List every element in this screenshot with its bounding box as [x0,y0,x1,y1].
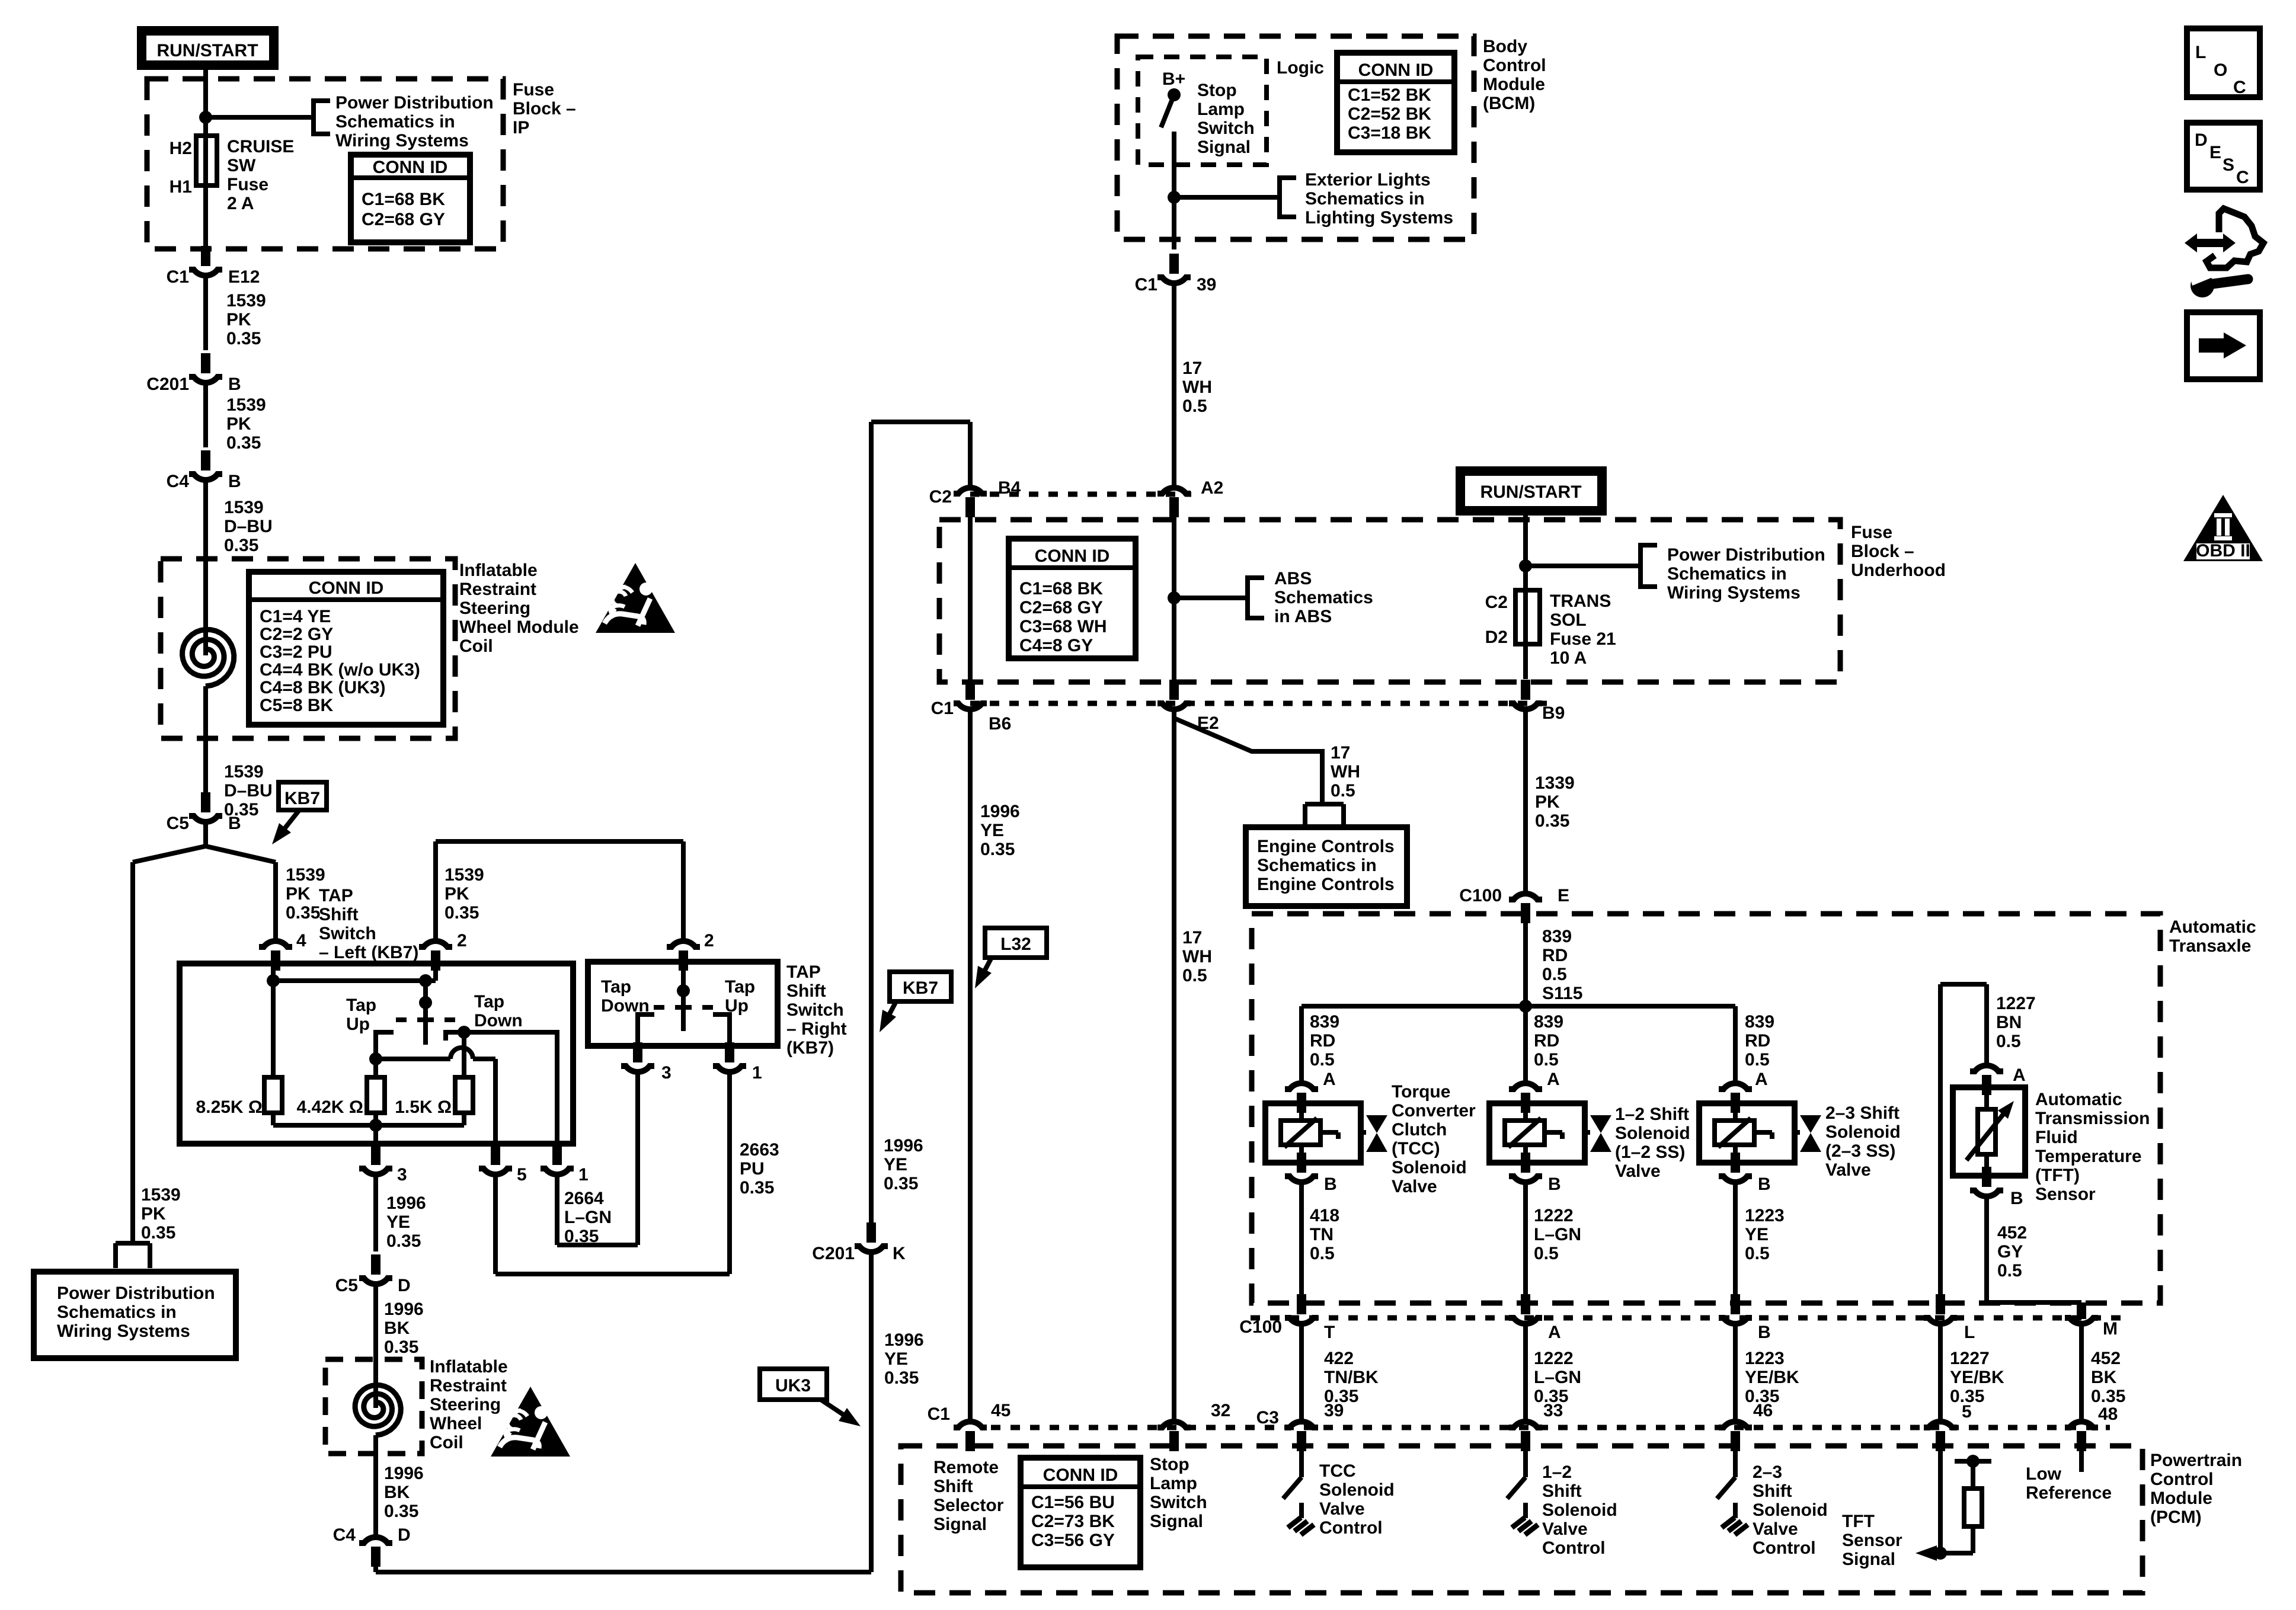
wire to Power Distribution reference [206,101,330,134]
svg-text:Signal: Signal [1842,1550,1895,1569]
svg-text:Lamp: Lamp [1197,100,1245,119]
svg-text:5: 5 [1962,1402,1972,1422]
svg-text:D2: D2 [1485,628,1508,647]
PCM connector pin 33 [1509,1422,1542,1451]
svg-text:1996: 1996 [384,1299,424,1319]
svg-text:Control: Control [1753,1538,1816,1558]
connector C100 pin A [1509,1294,1561,1342]
svg-text:Steering: Steering [459,598,530,618]
svg-text:Fuse: Fuse [227,175,268,194]
svg-text:1–2: 1–2 [1542,1462,1572,1482]
svg-text:0.5: 0.5 [1745,1244,1770,1263]
svg-text:B: B [228,472,241,491]
connector C1 pin 39 (BCM) [1135,254,1217,295]
svg-text:0.35: 0.35 [740,1178,774,1198]
label 1227 BN 0.5 [1996,994,2036,1051]
svg-text:839: 839 [1542,927,1572,946]
svg-text:0.5: 0.5 [1534,1050,1559,1070]
svg-text:WH: WH [1182,947,1212,966]
right switch pin 2 [667,931,714,971]
wire 1223 YE [1733,1183,1738,1295]
wire 1223 YE/BK [1733,1325,1738,1420]
svg-text:Steering: Steering [430,1395,501,1414]
svg-text:Switch: Switch [1150,1493,1207,1512]
TFT sensor (variable resistor) [1953,1087,2025,1176]
PCM connector pin 5 [1924,1422,1957,1451]
label 1539 PK 0.35 (1) [226,291,266,348]
TCC solenoid pin B [1285,1153,1337,1194]
label 2663 PU 0.35 [740,1140,779,1198]
svg-text:Automatic: Automatic [2169,917,2256,937]
svg-text:D: D [2195,130,2208,150]
label 1996 BK 0.35 (1) [384,1299,424,1357]
2-3 shift solenoid valve control driver [1717,1451,1748,1535]
svg-text:CONN ID: CONN ID [309,578,384,598]
svg-text:B: B [2010,1189,2023,1208]
label Stop Lamp Switch Signal (BCM) [1197,81,1255,157]
svg-text:1996: 1996 [884,1136,923,1156]
label Automatic Transmission Fluid Temperature (TFT) Sensor [2035,1090,2150,1204]
svg-text:WH: WH [1331,762,1360,782]
svg-text:Schematics in: Schematics in [57,1302,177,1322]
wire 1339 PK [1523,710,1528,892]
svg-text:Schematics in: Schematics in [1305,189,1425,209]
switch common bus [267,966,436,1077]
label Inflatable Restraint Steering Wheel Coil [430,1357,508,1452]
label Power Distribution Schematics (underhood) [1667,545,1825,603]
wire TapUp node to pin 5 with hop [376,1048,495,1144]
label Remote Shift Selector Signal [933,1458,1004,1534]
svg-text:UK3: UK3 [775,1376,811,1395]
TCC solenoid pin A [1285,1070,1336,1113]
svg-text:E12: E12 [228,267,260,287]
inline connector C100 dotted line [1251,1315,2125,1321]
label 17 WH 0.5 (2) [1331,743,1360,801]
low reference stub [2079,1451,2084,1472]
svg-text:Power Distribution: Power Distribution [57,1283,215,1303]
svg-text:32: 32 [1211,1401,1230,1420]
connector C100 pin T [1239,1294,1335,1342]
option flag KB7 (riser) [880,972,951,1032]
svg-text:RUN/START: RUN/START [1480,482,1581,502]
label 1223 YE/BK 0.35 pin 46 [1745,1349,1799,1420]
svg-text:Transaxle: Transaxle [2169,936,2251,956]
svg-text:Logic: Logic [1277,58,1324,78]
CONN ID table (PCM) [1021,1458,1140,1567]
svg-text:C3=56 GY: C3=56 GY [1031,1531,1115,1550]
svg-text:5: 5 [517,1165,527,1185]
svg-text:(PCM): (PCM) [2150,1507,2202,1527]
svg-text:Remote: Remote [933,1458,999,1477]
svg-text:IP: IP [513,118,529,137]
svg-text:Module: Module [1483,75,1545,94]
svg-text:C201: C201 [146,375,189,394]
connector C4 pin D [333,1454,411,1567]
svg-text:M: M [2103,1319,2118,1339]
svg-text:1539: 1539 [445,865,484,885]
svg-text:Powertrain: Powertrain [2150,1451,2242,1470]
BCM logic dashed box [1138,57,1267,165]
svg-text:PK: PK [141,1204,166,1224]
svg-text:CONN ID: CONN ID [1035,546,1110,566]
option flag KB7 (switch feed) [272,782,327,844]
svg-text:TAP: TAP [319,886,353,905]
svg-text:D: D [398,1525,411,1545]
wire pin2 to right switch pin2 [436,841,683,940]
svg-text:0.5: 0.5 [1310,1244,1335,1263]
connector C201 pin K [812,1244,906,1263]
svg-text:Solenoid: Solenoid [1542,1500,1617,1520]
svg-text:Tap: Tap [474,992,504,1012]
node B+ [1162,69,1185,89]
svg-text:4.42K Ω: 4.42K Ω [297,1097,363,1117]
TAP shift switch right box [588,962,778,1046]
icon LOC box [2187,28,2260,97]
connector pin B9 [1509,680,1565,723]
svg-text:Fuse 21: Fuse 21 [1550,629,1616,649]
svg-text:PU: PU [740,1159,765,1179]
svg-text:C5=8 BK: C5=8 BK [260,696,334,715]
label TAP Shift Switch - Left (KB7) [319,886,418,962]
wire 1996 YE from pin 3 [373,1176,378,1251]
TFT pull-up resistor to reference [1940,1455,1991,1553]
right Tap Up contact [713,1014,730,1046]
svg-text:Module: Module [2150,1489,2212,1508]
label Body Control Module (BCM) [1483,37,1546,113]
svg-text:8.25K Ω: 8.25K Ω [196,1097,263,1117]
svg-text:PK: PK [286,884,311,904]
label TAP Shift Switch - Right (KB7) [786,962,847,1058]
PCM connector C1 pin 45 [928,1401,1011,1451]
svg-text:C3=68 WH: C3=68 WH [1019,617,1107,636]
1-2 shift solenoid pin B [1509,1153,1561,1194]
wire 1996 YE riser with C201 connector [855,422,888,1572]
wire fuse to B9 [1523,644,1528,679]
svg-text:SW: SW [227,156,256,175]
svg-text:0.35: 0.35 [226,329,261,348]
wire 17 WH to PCM 32 [1172,710,1176,1420]
svg-text:Signal: Signal [1150,1512,1203,1531]
svg-text:Temperature: Temperature [2035,1147,2142,1166]
svg-text:KB7: KB7 [284,789,320,808]
svg-text:C2: C2 [929,487,952,507]
svg-text:Solenoid: Solenoid [1392,1158,1467,1177]
svg-text:1227: 1227 [1950,1349,1990,1368]
label Stop Lamp Switch Signal (PCM) [1150,1455,1207,1531]
svg-text:(TCC): (TCC) [1392,1139,1440,1158]
wire 2664 L-GN tap down link [557,1073,638,1245]
svg-text:S: S [2223,155,2234,175]
svg-text:C5: C5 [335,1276,358,1295]
svg-text:Tap: Tap [601,977,631,997]
fuse CRUISE SW 2A [196,136,217,185]
Fuse Block - Underhood dashed box [939,520,1840,682]
CONN ID table (underhood) [1009,539,1136,658]
wire 1227 feed to TFT [1940,984,1987,1297]
svg-text:Underhood: Underhood [1851,561,1946,580]
svg-text:0.35: 0.35 [386,1231,421,1251]
svg-text:Schematics: Schematics [1274,588,1373,607]
icon OBD II triangle [2183,495,2263,561]
svg-text:– Left (KB7): – Left (KB7) [319,943,418,962]
svg-text:1222: 1222 [1534,1206,1574,1225]
svg-text:TRANS: TRANS [1550,591,1611,611]
svg-text:3: 3 [397,1165,407,1185]
label 839 RD 0.5 S115 [1542,927,1582,1003]
svg-text:17: 17 [1182,359,1202,378]
SRS coil module dashed box (upper) [161,559,455,738]
label Tap Up (left switch) [346,996,376,1034]
wire 1222 L-GN (2) [1523,1325,1528,1420]
svg-text:Valve: Valve [1753,1519,1798,1539]
svg-text:SOL: SOL [1550,610,1587,630]
svg-text:C100: C100 [1239,1317,1282,1337]
svg-text:C1: C1 [931,699,954,718]
right switch blade [654,965,713,1031]
icon right arrow box [2187,312,2260,379]
svg-text:0.5: 0.5 [1182,966,1207,985]
svg-text:BK: BK [2091,1368,2117,1387]
svg-text:O: O [2214,60,2227,80]
wire 1539 PK left branch [130,862,135,1243]
wire 422 TN/BK [1299,1325,1304,1420]
power feed tag RUN/START (right) [1460,471,1602,511]
svg-text:Solenoid: Solenoid [1615,1124,1690,1143]
svg-text:839: 839 [1534,1012,1563,1032]
wire 452 BK [2079,1325,2084,1420]
wire 1539 D-BU segment [203,481,208,559]
svg-text:C1=4 YE: C1=4 YE [260,607,331,626]
svg-text:YE: YE [1745,1225,1769,1244]
svg-text:YE/BK: YE/BK [1950,1368,2004,1387]
label Fuse Block - Underhood [1851,523,1946,580]
svg-text:Wiring Systems: Wiring Systems [1667,583,1801,603]
svg-text:– Right: – Right [786,1019,847,1039]
resistor 1.5K [395,1077,473,1117]
svg-text:Sensor: Sensor [2035,1185,2096,1204]
label Automatic Transaxle [2169,917,2256,956]
svg-text:C3: C3 [1256,1408,1279,1427]
svg-text:A: A [1755,1070,1768,1089]
svg-text:Body: Body [1483,37,1527,56]
svg-text:Solenoid: Solenoid [1319,1480,1395,1500]
label Tap Down (right switch) [601,977,650,1016]
svg-text:1539: 1539 [224,762,264,782]
junction on fuse feed [199,111,212,124]
svg-text:PK: PK [226,414,251,434]
reference box Engine Controls Schematics [1246,827,1407,906]
svg-text:H1: H1 [170,177,192,197]
svg-text:Control: Control [1319,1518,1383,1538]
svg-text:B6: B6 [989,714,1011,734]
svg-text:0.35: 0.35 [980,840,1015,859]
svg-text:2664: 2664 [564,1189,604,1208]
switch pin 1 [541,1145,589,1185]
power feed tag RUN/START (left) [142,31,274,65]
svg-text:A: A [1547,1070,1560,1089]
label 2664 L-GN 0.35 [564,1189,612,1246]
svg-text:Schematics in: Schematics in [335,112,455,132]
svg-text:2663: 2663 [740,1140,779,1160]
svg-text:Power Distribution: Power Distribution [1667,545,1825,565]
svg-text:C: C [2236,168,2249,187]
off-page connector symbol (engine controls) [1305,804,1344,825]
switch pin 3 [359,1145,407,1185]
svg-text:B: B [1758,1174,1771,1194]
svg-text:0.5: 0.5 [1182,396,1207,416]
svg-text:1227: 1227 [1996,994,2036,1013]
wire RUN/START to TRANS SOL fuse [1523,511,1528,590]
svg-text:Shift: Shift [319,905,359,924]
SRS warning triangle (upper) [596,563,675,633]
svg-text:839: 839 [1310,1012,1339,1032]
svg-text:Switch: Switch [786,1000,844,1020]
svg-text:T: T [1324,1323,1335,1342]
label Fuse Block - IP [513,80,576,137]
2-3 shift solenoid pin B [1719,1153,1771,1194]
fuse pins C2 D2 [1485,593,1508,647]
wire 1222 L-GN [1523,1183,1528,1295]
svg-text:17: 17 [1182,928,1202,948]
PCM connector pin 32 [1157,1401,1230,1451]
svg-text:10 A: 10 A [1550,648,1587,668]
Automatic Transaxle dashed box [1252,914,2160,1303]
svg-text:Stop: Stop [1197,81,1237,100]
svg-text:L–GN: L–GN [564,1208,612,1227]
svg-text:Fuse: Fuse [513,80,554,100]
TAP shift switch left box [180,964,573,1144]
label 1539 D-BU 0.35 (1) [224,498,273,555]
svg-text:1539: 1539 [141,1185,181,1205]
svg-text:H2: H2 [170,139,192,158]
connector C1 pin E12 [167,246,260,287]
label ABS Schematics in ABS [1274,569,1373,626]
svg-text:Wheel Module: Wheel Module [459,617,579,637]
solenoid valve TCC [1265,1103,1387,1163]
wire split after C5 [133,823,276,862]
Fuse Block - IP dashed box [147,79,503,249]
svg-text:Fuse: Fuse [1851,523,1892,542]
connector C100 pin L [1924,1294,1975,1342]
1-2 shift solenoid valve control driver [1507,1451,1538,1535]
svg-text:Up: Up [346,1014,370,1034]
TFT sensor signal node [1916,1451,1947,1561]
svg-text:Valve: Valve [1615,1161,1661,1181]
svg-text:OBD II: OBD II [2196,541,2250,561]
svg-text:1: 1 [752,1063,762,1083]
svg-text:BK: BK [384,1318,410,1338]
wire 1539 PK right branch [273,862,278,940]
svg-text:RD: RD [1310,1031,1335,1051]
svg-text:Fluid: Fluid [2035,1128,2078,1147]
connector pin E2 [1157,680,1219,733]
PCM connector pin 46 [1719,1422,1752,1451]
svg-text:WH: WH [1182,377,1212,397]
svg-text:Valve: Valve [1825,1160,1871,1180]
fuse pins H2 H1 [170,139,192,197]
svg-text:B: B [1758,1323,1771,1342]
svg-text:YE/BK: YE/BK [1745,1368,1799,1387]
svg-text:39: 39 [1324,1401,1344,1420]
connector C4 pin B [167,450,241,491]
svg-text:C3=2 PU: C3=2 PU [260,642,332,662]
svg-text:Schematics in: Schematics in [1257,856,1377,875]
solenoid valve 1-2 shift [1489,1103,1611,1163]
svg-text:D–BU: D–BU [224,517,273,536]
label 452 GY 0.5 [1997,1223,2027,1281]
PCM connector C3 pin 39 [1256,1408,1318,1451]
svg-text:1–2 Shift: 1–2 Shift [1615,1105,1689,1124]
svg-text:Switch: Switch [319,924,376,943]
svg-text:0.35: 0.35 [1535,811,1569,831]
svg-text:0.35: 0.35 [564,1227,599,1246]
svg-text:(KB7): (KB7) [786,1038,834,1058]
svg-text:2–3 Shift: 2–3 Shift [1825,1103,1900,1123]
svg-text:Power Distribution: Power Distribution [335,93,494,113]
svg-text:L–GN: L–GN [1534,1368,1581,1387]
svg-text:0.5: 0.5 [1331,781,1355,801]
svg-text:(2–3 SS): (2–3 SS) [1825,1141,1895,1161]
label 422 TN/BK 0.35 pin 39 [1324,1349,1379,1420]
label Logic [1277,58,1324,78]
label 1-2 Shift Solenoid Valve [1615,1105,1690,1181]
svg-text:Exterior Lights: Exterior Lights [1305,170,1431,190]
wire 1996 YE inside fuse block [968,516,973,680]
svg-text:1539: 1539 [226,395,266,415]
svg-text:1996: 1996 [384,1464,424,1483]
svg-text:PK: PK [226,310,251,329]
label 1539 D-BU 0.35 (2) [224,762,273,820]
svg-text:C2=52 BK: C2=52 BK [1348,104,1431,124]
label 2-3 Shift Solenoid Valve [1825,1103,1901,1180]
svg-text:Wheel: Wheel [430,1414,482,1433]
svg-text:C4=8 BK (UK3): C4=8 BK (UK3) [260,678,386,697]
wire to Power Distribution reference (underhood) [1519,545,1657,587]
wire 452 GY [1987,1198,2081,1302]
label 1996 YE 0.35 (riser mid) [884,1136,923,1193]
svg-text:Block –: Block – [513,99,576,119]
svg-text:K: K [893,1244,906,1263]
wire 1227 YE/BK [1938,1325,1943,1420]
svg-text:TN: TN [1310,1225,1334,1244]
svg-text:Sensor: Sensor [1842,1531,1902,1550]
svg-text:Stop: Stop [1150,1455,1189,1474]
svg-text:33: 33 [1543,1401,1563,1420]
svg-text:1222: 1222 [1534,1349,1574,1368]
resistor common bus to pin 3 [273,1113,464,1144]
label 1222 L-GN 0.35 pin 33 [1534,1349,1581,1420]
label 1539 PK 0.35 (2) [226,395,266,453]
inline connector dotted line B6-E2-B9 [970,701,1550,706]
svg-text:S115: S115 [1542,984,1582,1003]
label 839 RD 0.5 (TCC) [1310,1012,1339,1070]
svg-text:0.5: 0.5 [1310,1050,1335,1070]
svg-text:Switch: Switch [1197,119,1255,138]
svg-text:Engine Controls: Engine Controls [1257,875,1395,894]
wire 1539 PK segment 1 [203,277,208,350]
connector C5 pin B [167,792,241,833]
label Low Reference [2026,1464,2112,1503]
label CRUISE SW Fuse 2A [227,137,294,213]
svg-text:TFT: TFT [1842,1512,1875,1531]
svg-text:Valve: Valve [1319,1499,1365,1519]
svg-text:D–BU: D–BU [224,781,273,801]
svg-text:TAP: TAP [786,962,821,982]
svg-text:0.35: 0.35 [384,1337,418,1357]
svg-text:Lamp: Lamp [1150,1474,1197,1493]
wire U-turn to BCM branch [871,422,970,486]
svg-text:L–GN: L–GN [1534,1225,1581,1244]
